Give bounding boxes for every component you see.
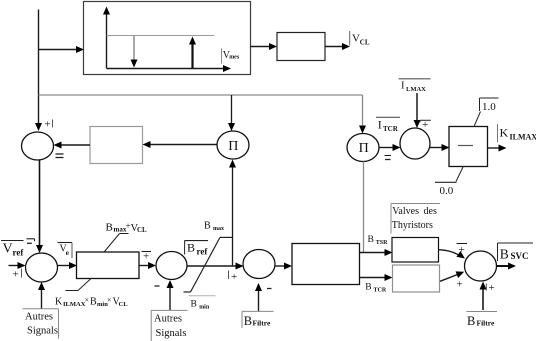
label BSVC	[498, 243, 534, 261]
label ILMAX	[399, 79, 431, 93]
label Bmax	[204, 220, 224, 232]
svg-text:K: K	[500, 126, 509, 140]
block measurement box (top graph box)	[84, 2, 251, 75]
wire S2 to PI block	[58, 262, 78, 269]
wire S3 to S5	[187, 263, 244, 270]
label plus-bar S2	[13, 269, 22, 281]
wire Vref into S2	[9, 262, 26, 269]
label bar-plus S5	[229, 271, 238, 284]
graph vertical axis	[103, 7, 110, 69]
svg-text:ILMAX: ILMAX	[510, 133, 536, 142]
svg-text:CL: CL	[360, 39, 370, 47]
wire Autres2 up to S3	[167, 280, 174, 310]
svg-text:ILMAX: ILMAX	[63, 301, 86, 308]
label BTCR	[365, 283, 387, 294]
svg-text:+: +	[489, 282, 495, 294]
svg-text:×: ×	[85, 296, 90, 305]
svg-text:TCR: TCR	[383, 125, 399, 133]
label BTSR	[368, 235, 389, 246]
svg-text:B: B	[467, 314, 475, 328]
svg-text:B: B	[106, 221, 113, 233]
svg-text:I: I	[401, 80, 405, 91]
label Vmes	[222, 49, 240, 64]
svg-text:Autres: Autres	[154, 314, 182, 325]
svg-text:×: ×	[107, 296, 112, 305]
svg-text:Signals: Signals	[27, 326, 58, 337]
wire PI1 to filter	[143, 141, 218, 148]
wire S1 down to S2	[36, 161, 43, 254]
svg-text:Valves: Valves	[392, 206, 419, 217]
wire BTCR to valve2	[360, 274, 393, 281]
svg-text:Signals: Signals	[156, 328, 187, 339]
svg-text:Autres: Autres	[25, 312, 53, 323]
svg-text:B: B	[368, 235, 374, 245]
graph horizontal axis	[107, 65, 232, 72]
label bar-plus S6	[486, 282, 494, 294]
label minus under PI2 wire	[385, 156, 392, 160]
product junction PI1	[217, 131, 249, 159]
svg-text:B: B	[191, 300, 197, 310]
label plus overline S4	[420, 119, 431, 131]
product junction PI2	[347, 134, 379, 162]
svg-text:max: max	[213, 226, 224, 232]
label KILMAX*Bmin*VCL callout	[55, 279, 128, 308]
block limiter	[449, 127, 488, 167]
block VCL	[277, 33, 325, 61]
wire valve1 to S6	[439, 250, 465, 259]
wire S4 to limiter	[430, 144, 450, 151]
wire ILMAX down to S4	[414, 93, 421, 128]
label Ve	[58, 243, 73, 259]
label BFiltre 1	[242, 311, 274, 328]
svg-text:B: B	[187, 241, 195, 255]
label plus overline valve1	[457, 244, 468, 257]
wire KILMAX output	[488, 145, 507, 152]
label Autres Signals 2	[151, 310, 188, 341]
label VCL	[350, 31, 370, 47]
svg-text:B: B	[204, 220, 211, 231]
graph down arrow	[131, 36, 138, 68]
svg-text:+: +	[459, 244, 465, 256]
wire V input vertical	[35, 10, 42, 132]
svg-text:mes: mes	[229, 55, 240, 61]
svg-text:+: +	[45, 119, 51, 131]
svg-text:B: B	[244, 314, 252, 328]
wire BTSR to valve1	[360, 249, 393, 256]
label Bref	[185, 241, 209, 257]
svg-text:CL: CL	[137, 226, 147, 234]
label plus-bar S1	[45, 119, 53, 131]
label minus S3	[155, 285, 160, 287]
block distribution control	[292, 244, 360, 285]
svg-text:e: e	[66, 249, 69, 257]
svg-text:TSR: TSR	[376, 240, 388, 246]
label Bmax+VCL callout	[105, 221, 148, 252]
svg-text:I: I	[378, 117, 382, 131]
block filter A	[90, 127, 143, 164]
svg-text:des: des	[424, 206, 437, 217]
label 0.0	[435, 167, 463, 197]
svg-text:Thyristors: Thyristors	[392, 220, 433, 231]
svg-text:B: B	[500, 246, 509, 261]
svg-text:+: +	[143, 251, 149, 263]
svg-text:ref: ref	[13, 248, 25, 258]
label KILMAX	[498, 124, 536, 143]
label plus overline S3	[142, 251, 152, 263]
svg-text:Filtre: Filtre	[477, 318, 495, 327]
wire S5 to control block	[275, 263, 292, 270]
label Valves des Thyristors	[391, 204, 440, 234]
limiter diagonal Bmax Bmin	[184, 237, 233, 292]
summing junction S5	[243, 250, 275, 279]
label Bmin	[189, 296, 216, 311]
svg-text:+: +	[422, 119, 428, 131]
svg-text:TCR: TCR	[374, 288, 387, 294]
wire box to VCL block	[251, 43, 278, 50]
wire BFiltre1 up to S5	[255, 283, 262, 312]
label minus S5	[267, 288, 272, 290]
label ITCR	[376, 117, 400, 133]
wire BFiltre2 up to S6	[480, 282, 487, 311]
svg-text:Π: Π	[359, 141, 369, 156]
wire drop to product PI1	[228, 95, 235, 131]
summing junction S3	[156, 252, 187, 280]
label minus overline S2	[27, 239, 35, 244]
wire PI to S3	[139, 262, 156, 269]
graph level line	[107, 35, 215, 37]
svg-text:K: K	[55, 297, 63, 308]
summing junction S2	[26, 253, 58, 282]
label BFiltre 2	[466, 312, 497, 329]
svg-text:ref: ref	[197, 247, 209, 257]
svg-text:B: B	[90, 297, 97, 308]
svg-text:0.0: 0.0	[440, 185, 454, 197]
wire Bref up to PI1	[229, 160, 236, 267]
wire V distribution horizontal	[39, 94, 363, 96]
svg-text:SVC: SVC	[511, 251, 529, 261]
summing junction S4	[400, 128, 430, 159]
wire BSVC output	[497, 263, 517, 270]
wire drop to product PI2	[359, 95, 366, 134]
summing junction S1	[22, 132, 54, 160]
label Vref	[1, 241, 24, 258]
block valve TCR	[393, 265, 440, 292]
block valve TSR	[392, 238, 439, 263]
wire filter to S1	[54, 142, 91, 149]
svg-text:LMAX: LMAX	[406, 86, 426, 93]
summing junction S6	[465, 251, 497, 281]
svg-text:+: +	[231, 271, 237, 283]
svg-text:V: V	[352, 33, 360, 45]
svg-text:+: +	[13, 269, 19, 281]
wire PI2 to S4	[379, 144, 401, 151]
svg-text:1.0: 1.0	[482, 101, 496, 113]
svg-text:CL: CL	[119, 301, 129, 308]
svg-text:Filtre: Filtre	[253, 319, 271, 328]
wire valve2 to S6	[440, 271, 464, 281]
wire VCL output	[325, 43, 350, 50]
wire BTSR up to PI2	[363, 162, 365, 253]
label Autres Signals 1	[23, 309, 59, 339]
label minus S1	[56, 154, 64, 158]
svg-text:V: V	[3, 242, 13, 257]
wire Autres1 up to S2	[38, 282, 45, 309]
wire branch into deadband box	[39, 46, 85, 53]
svg-text:Π: Π	[228, 139, 238, 154]
svg-text:min: min	[199, 305, 210, 311]
block PI regulator	[77, 252, 140, 279]
label 1.0	[474, 98, 499, 127]
svg-text:+: +	[457, 279, 463, 291]
graph up arrow	[189, 37, 196, 69]
svg-text:B: B	[365, 283, 371, 293]
